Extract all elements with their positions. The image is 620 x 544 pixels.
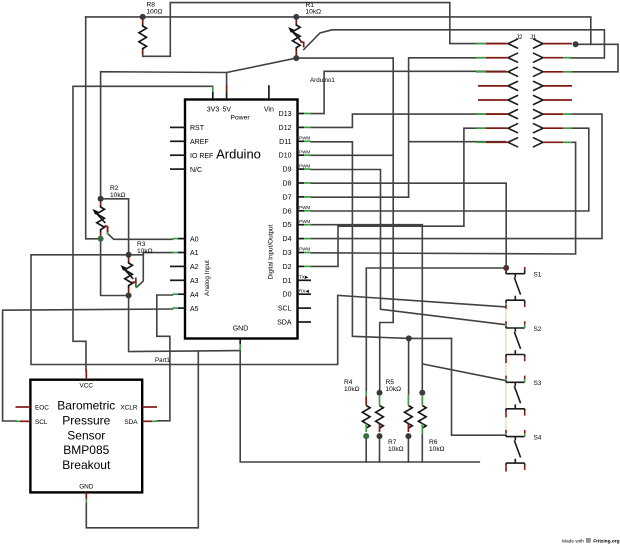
svg-text:RST: RST bbox=[190, 125, 205, 132]
wire A4 to sensor SDA bbox=[157, 295, 173, 421]
svg-text:10kΩ: 10kΩ bbox=[306, 9, 322, 16]
potentiometer R2 bottom stub bbox=[100, 232, 102, 236]
connector J2 pin 1 chevron bbox=[508, 39, 518, 48]
wire D4 to J1.6 bbox=[311, 114, 602, 239]
switch S3 bbox=[506, 376, 525, 418]
potentiometer R3 wiper stub bbox=[132, 282, 135, 288]
connector J1 pin 8 chevron bbox=[534, 138, 544, 147]
node R2 bottom bbox=[98, 236, 104, 242]
svg-text:D9: D9 bbox=[283, 167, 292, 174]
Arduino top pin 3V3 lead bbox=[212, 86, 214, 99]
PWM tags bbox=[299, 136, 310, 294]
resistor R5 body bbox=[376, 406, 384, 429]
sensor pin VCC stub bbox=[85, 370, 87, 380]
svg-text:D10: D10 bbox=[279, 153, 292, 160]
node R1 bottom bbox=[293, 55, 299, 61]
wire D7 to column x=408.6 bbox=[311, 196, 409, 198]
wire D13 to J2.3 bbox=[311, 71, 506, 113]
wire J1.1 dot east to x=618 down to J1.3 bbox=[570, 44, 618, 72]
J2 pin4 lead unconnected bbox=[478, 85, 508, 87]
svg-text:D6: D6 bbox=[283, 208, 292, 215]
connector J2 pin 4 chevron bbox=[508, 81, 518, 90]
Arduino right pin leads D13..SDA bbox=[298, 114, 312, 323]
svg-text:A5: A5 bbox=[190, 306, 199, 313]
resistor R8 bottom stub bbox=[142, 50, 144, 55]
sensor pin EOC lead bbox=[16, 406, 31, 408]
svg-text:Sensor: Sensor bbox=[67, 428, 105, 442]
connector J1 pin 6 chevron bbox=[534, 110, 544, 119]
svg-text:VCC: VCC bbox=[80, 383, 94, 390]
wire R5 bottom to rail bbox=[379, 436, 381, 462]
pin D7 lead bbox=[298, 196, 312, 198]
sensor pin GND stub bbox=[85, 492, 87, 503]
svg-text:AREF: AREF bbox=[190, 139, 209, 146]
R4 top green bbox=[365, 391, 367, 397]
connector J1 pin 3 chevron bbox=[534, 67, 544, 76]
J1 pin3 lead bbox=[543, 71, 572, 73]
svg-text:D3: D3 bbox=[283, 250, 292, 257]
svg-text:R2: R2 bbox=[110, 185, 119, 192]
label sensor title bbox=[57, 399, 115, 473]
svg-text:SCL: SCL bbox=[278, 306, 292, 313]
wire D3 to J1.8 bbox=[311, 142, 576, 254]
svg-text:Digital Input/Output: Digital Input/Output bbox=[268, 224, 275, 279]
svg-text:A4: A4 bbox=[190, 292, 199, 299]
pin IO REF lead bbox=[170, 154, 185, 156]
op-amp/mcu Arduino box bbox=[185, 100, 298, 339]
svg-text:Pressure: Pressure bbox=[62, 413, 110, 427]
ratsnest switch left pins S1-S4 bbox=[505, 308, 507, 434]
svg-text:D4: D4 bbox=[283, 236, 292, 243]
node S1 top-left bbox=[503, 265, 509, 271]
node J1.1 bbox=[573, 41, 579, 47]
Arduino bottom pin GND lead bbox=[239, 339, 241, 351]
node R5 top bbox=[377, 390, 383, 396]
wire sensor GND riser bbox=[86, 351, 198, 528]
svg-text:D2: D2 bbox=[283, 264, 292, 271]
svg-text:Fritzing.org: Fritzing.org bbox=[593, 538, 619, 544]
svg-text:SDA: SDA bbox=[124, 419, 138, 426]
svg-text:10kΩ: 10kΩ bbox=[386, 386, 402, 393]
wire R4 bottom to rail bbox=[365, 436, 367, 462]
pin A2 lead bbox=[170, 265, 185, 267]
pin D5 lead bbox=[298, 224, 312, 226]
pin A4 lead bbox=[173, 293, 186, 295]
R5 bottom red bbox=[379, 424, 381, 433]
connector J2 pin 3 chevron bbox=[508, 67, 518, 76]
connector J1 pin 5 chevron bbox=[534, 96, 544, 105]
svg-text:Analog Input: Analog Input bbox=[204, 260, 211, 296]
svg-text:D13: D13 bbox=[279, 111, 292, 118]
pin D11 lead bbox=[298, 140, 312, 142]
svg-text:Arduino: Arduino bbox=[216, 147, 261, 162]
sensor pin SDA lead bbox=[142, 420, 157, 422]
Arduino top pin Vin lead (unconnected) bbox=[268, 85, 270, 99]
J2 pin8 lead bbox=[476, 141, 508, 143]
Arduino left pin labels bbox=[190, 125, 213, 313]
svg-text:PWM: PWM bbox=[299, 219, 310, 224]
node R2 top bbox=[98, 196, 104, 202]
J2 pin7 lead bbox=[476, 127, 508, 129]
J2 pin3 lead bbox=[476, 71, 508, 73]
svg-text:D11: D11 bbox=[279, 139, 291, 146]
J2 pin5 lead unconnected bbox=[478, 99, 508, 101]
node R1 top bbox=[293, 14, 299, 20]
wire D12 to J2.6 bbox=[311, 114, 506, 127]
svg-text:TX▶: TX▶ bbox=[299, 275, 309, 280]
wire R1 bottom to column x=393 bbox=[296, 57, 393, 59]
sensor pin XCLR lead bbox=[142, 406, 157, 408]
svg-text:RX◀: RX◀ bbox=[299, 288, 309, 293]
wire S1 dot to R4 riser bbox=[366, 268, 506, 392]
J1 pin8 lead bbox=[543, 141, 572, 143]
svg-text:PWM: PWM bbox=[299, 149, 310, 154]
svg-text:R8: R8 bbox=[147, 2, 156, 9]
svg-text:XCLR: XCLR bbox=[120, 405, 137, 412]
wire left riser x=86 down to R2 bottom bbox=[86, 17, 101, 239]
node R4 bottom bbox=[363, 433, 369, 439]
J2 pin2 lead bbox=[476, 57, 508, 59]
wire S4 column bbox=[452, 338, 505, 435]
wire D5 to S3/R6 column bbox=[311, 225, 422, 392]
wire R3 top dot west loop to Part1 riser to S1 bottom-left diagonal bbox=[31, 255, 505, 365]
svg-text:A0: A0 bbox=[190, 236, 199, 243]
J1 pin4 lead unconnected bbox=[543, 85, 572, 87]
svg-text:A1: A1 bbox=[190, 250, 199, 257]
svg-text:S4: S4 bbox=[534, 434, 542, 441]
svg-text:Breakout: Breakout bbox=[62, 458, 111, 472]
pin D4 lead bbox=[298, 238, 312, 240]
svg-text:D8: D8 bbox=[283, 181, 292, 188]
wire R8 bottom loop to J2 pin1 bbox=[143, 3, 506, 57]
R7 bottom red bbox=[407, 424, 409, 433]
svg-text:GND: GND bbox=[79, 484, 94, 491]
pin SDA lead bbox=[298, 321, 312, 323]
svg-text:D0: D0 bbox=[283, 292, 292, 299]
resistor R8 body bbox=[139, 25, 147, 51]
J1 pin2 lead bbox=[543, 57, 572, 59]
connector J2 pin 5 chevron bbox=[508, 96, 518, 105]
connector J1 pin 1 chevron bbox=[534, 39, 544, 48]
J2 pin1 lead bbox=[476, 43, 508, 45]
pin D10 lead bbox=[298, 154, 312, 156]
pin A0 lead bbox=[173, 238, 186, 240]
pin D12 lead bbox=[298, 126, 312, 128]
wire D9 to S2 diagonal bbox=[311, 170, 505, 325]
wire R7 bottom to rail bbox=[407, 436, 409, 462]
pin A1 lead bbox=[173, 252, 186, 254]
wire R2 top to R3 top column bbox=[101, 199, 129, 255]
node R7 bottom bbox=[405, 433, 411, 439]
potentiometer R3 wiper red bbox=[135, 278, 137, 284]
Arduino top pin 5V lead bbox=[226, 86, 228, 100]
pin RST lead bbox=[170, 126, 185, 128]
wire R3 bottom down to Arduino GND lead bbox=[129, 296, 241, 352]
svg-text:PWM: PWM bbox=[299, 205, 310, 210]
svg-text:R4: R4 bbox=[344, 379, 353, 386]
svg-text:BMP085: BMP085 bbox=[63, 443, 109, 457]
pin SCL lead bbox=[298, 307, 312, 309]
node R6 top bbox=[419, 390, 425, 396]
potentiometer R3 arrow bbox=[123, 268, 134, 280]
connector J2 pin 8 chevron bbox=[508, 138, 518, 147]
svg-text:PWM: PWM bbox=[299, 247, 310, 252]
R4 bottom green bbox=[365, 424, 367, 433]
J1 pin6 lead bbox=[543, 113, 572, 115]
potentiometer R3 bottom stub bbox=[128, 288, 130, 293]
wire J2.8 to node column x=408.6 bbox=[409, 58, 506, 197]
svg-text:Arduino1: Arduino1 bbox=[310, 77, 335, 84]
resistor R8 top stub bbox=[142, 20, 144, 25]
pin D3 lead bbox=[298, 252, 312, 254]
R2 wiper green tip bbox=[107, 232, 109, 235]
pin D8 lead bbox=[298, 182, 312, 184]
potentiometer R1 arrow bbox=[291, 30, 302, 42]
svg-text:100Ω: 100Ω bbox=[147, 9, 163, 16]
svg-text:R6: R6 bbox=[429, 439, 438, 446]
svg-text:D5: D5 bbox=[283, 222, 292, 229]
potentiometer R3 top stub bbox=[128, 258, 130, 262]
Arduino right pin labels bbox=[277, 111, 292, 327]
svg-text:SDA: SDA bbox=[277, 320, 292, 327]
red pin stubs of R parts bbox=[101, 20, 367, 406]
svg-text:PWM: PWM bbox=[299, 136, 310, 141]
pin D9 lead bbox=[298, 168, 312, 170]
J1 pin7 lead bbox=[543, 127, 572, 129]
svg-text:EOC: EOC bbox=[35, 405, 49, 412]
wire R6 bottom to rail bbox=[421, 433, 423, 462]
R3 wiper green tip bbox=[135, 284, 138, 288]
J2 pin6 lead bbox=[476, 113, 508, 115]
pin D13 lead bbox=[298, 113, 312, 115]
R6 top green bbox=[421, 396, 423, 406]
wire J2.1 lead feed already above; wire R2 wiper to A0 bbox=[108, 234, 173, 240]
svg-text:Vin: Vin bbox=[264, 107, 274, 114]
svg-text:A3: A3 bbox=[190, 278, 199, 285]
wire D6 to J1.7 bbox=[311, 128, 589, 211]
resistor R6 body bbox=[418, 406, 426, 429]
svg-text:IO REF: IO REF bbox=[190, 153, 213, 160]
connector J2 pin 7 chevron bbox=[508, 124, 518, 133]
svg-text:Barometric: Barometric bbox=[57, 399, 115, 413]
pin N/C lead bbox=[170, 168, 185, 170]
potentiometer R3 body bbox=[125, 262, 133, 289]
legend Made with Fritzing.org bbox=[562, 538, 620, 544]
wire R3 top dot east to A1 bbox=[129, 253, 173, 255]
svg-text:N/C: N/C bbox=[190, 167, 202, 174]
pin A5 lead bbox=[173, 307, 186, 309]
sensor Part1 box bbox=[30, 380, 142, 493]
svg-text:10kΩ: 10kΩ bbox=[429, 446, 445, 453]
svg-text:10kΩ: 10kΩ bbox=[388, 446, 404, 453]
svg-text:R7: R7 bbox=[388, 439, 397, 446]
svg-text:S3: S3 bbox=[534, 380, 542, 387]
resistor R4 body bbox=[362, 406, 370, 429]
pin A3 lead bbox=[170, 279, 185, 281]
svg-text:3V3: 3V3 bbox=[207, 107, 220, 114]
wire D8 to S1 top dot bbox=[311, 183, 506, 267]
svg-text:GND: GND bbox=[233, 326, 249, 333]
wire GND-top rail: corner to R8 top to R1 top to J1.1 riser bbox=[86, 17, 591, 44]
svg-text:10kΩ: 10kΩ bbox=[137, 248, 153, 255]
wire R1 bottom diagonal to 5V node bbox=[227, 58, 297, 87]
potentiometer R2 top stub bbox=[100, 202, 102, 206]
Arduino left pins RST AREF IOREF N/C bbox=[170, 127, 185, 280]
svg-text:A2: A2 bbox=[190, 264, 199, 271]
wire D11 to R7 node rail bbox=[311, 142, 452, 339]
potentiometer R1 bottom stub bbox=[295, 50, 297, 56]
svg-text:Made with: Made with bbox=[562, 538, 584, 544]
pin D0 lead bbox=[298, 293, 312, 295]
svg-text:D1: D1 bbox=[283, 278, 292, 285]
R6 bottom green bbox=[421, 424, 423, 435]
potentiometer R1 top stub bbox=[295, 20, 297, 24]
pin AREF lead bbox=[170, 140, 185, 142]
wire A5 to sensor SCL bbox=[3, 309, 173, 421]
node R5 bottom bbox=[377, 433, 383, 439]
wire node dot to R7 top bbox=[408, 338, 410, 394]
connector J1 pin 7 chevron bbox=[534, 124, 544, 133]
switch S4 bbox=[506, 430, 525, 472]
wire R1 wiper to J1.2 bbox=[304, 30, 605, 58]
svg-text:Part1: Part1 bbox=[155, 357, 170, 364]
node R3 bottom bbox=[126, 293, 132, 299]
svg-text:R3: R3 bbox=[137, 241, 146, 248]
svg-text:Power: Power bbox=[230, 115, 250, 122]
resistor R7 body bbox=[405, 406, 413, 429]
node R7 rail dot bbox=[406, 335, 412, 341]
J1 pin1 lead bbox=[543, 43, 572, 45]
node R8 top bbox=[140, 14, 146, 20]
R7 top green bbox=[407, 395, 409, 406]
svg-text:10kΩ: 10kΩ bbox=[344, 386, 360, 393]
connector J2 pin 2 chevron bbox=[508, 53, 518, 62]
wire R3 wiper link bbox=[137, 255, 144, 287]
svg-text:5V: 5V bbox=[223, 107, 232, 114]
svg-text:S2: S2 bbox=[534, 326, 542, 333]
connector J2 pin 6 chevron bbox=[508, 110, 518, 119]
green connected-lead segments bbox=[108, 232, 423, 434]
svg-text:SCL: SCL bbox=[35, 419, 48, 426]
connector J1 pin 2 chevron bbox=[534, 53, 544, 62]
svg-text:D7: D7 bbox=[283, 194, 292, 201]
wire D2 to J2.7 bbox=[311, 128, 506, 266]
sensor pin SCL lead bbox=[16, 420, 31, 422]
pin D6 lead bbox=[298, 210, 312, 212]
connector J1 pin 4 chevron bbox=[534, 81, 544, 90]
svg-text:R5: R5 bbox=[386, 379, 395, 386]
potentiometer R2 arrow bbox=[95, 212, 106, 224]
svg-text:PWM: PWM bbox=[299, 163, 310, 168]
connected analog leads with green tips bbox=[173, 239, 186, 309]
wire D10 down and jog to R5 top bbox=[311, 58, 393, 392]
pin D1 lead bbox=[298, 279, 312, 281]
resistor R4 top red bbox=[365, 397, 367, 406]
node R3 top bbox=[126, 252, 132, 258]
wire Arduino GND down to bottom rail bbox=[240, 351, 479, 462]
wire R2 bottom down to R3 bottom bbox=[101, 239, 129, 296]
potentiometer R2 body bbox=[97, 206, 105, 233]
wire 3V3 to left riser x=73 down to sensor VCC bbox=[73, 86, 213, 370]
potentiometer R1 wiper stub bbox=[300, 42, 304, 48]
potentiometer R2 wiper stub bbox=[104, 226, 107, 234]
potentiometer R1 body bbox=[292, 24, 300, 51]
switch S2 bbox=[506, 321, 525, 363]
J1 pin5 lead unconnected bbox=[543, 99, 572, 101]
svg-text:S1: S1 bbox=[534, 272, 542, 279]
wire node to R2 top feed bbox=[101, 72, 227, 199]
pin D2 lead bbox=[298, 265, 312, 267]
potentiometer R2 wiper red bbox=[107, 227, 109, 232]
wire S3 diagonal branch bbox=[422, 364, 505, 381]
switch S1 bbox=[506, 267, 525, 309]
svg-text:10kΩ: 10kΩ bbox=[110, 192, 126, 199]
R5 top green bbox=[379, 396, 381, 406]
svg-text:D12: D12 bbox=[279, 125, 292, 132]
